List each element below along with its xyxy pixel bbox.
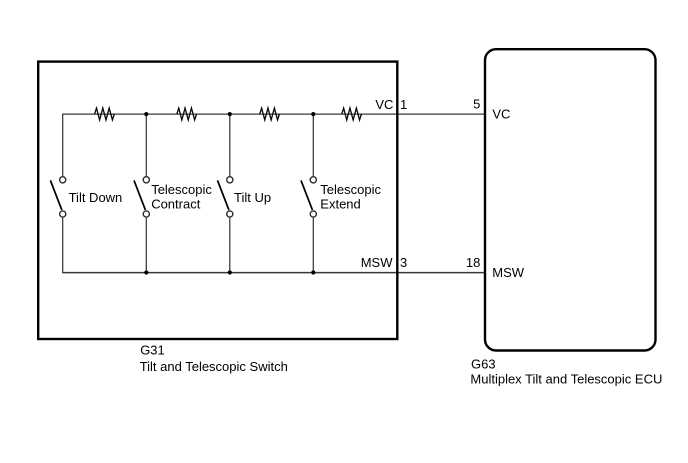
wire: VC net top horizontal	[62, 113, 484, 115]
svg-text:Telescopic: Telescopic	[320, 182, 381, 197]
switch SW1 Tilt Down	[50, 177, 122, 217]
pin name MSW inside ECU	[492, 265, 525, 280]
switch SW3 Tilt Up	[218, 177, 272, 217]
svg-text:18: 18	[466, 255, 480, 270]
net label MSW (left of pin 3)	[361, 255, 394, 270]
svg-text:G63: G63	[471, 356, 496, 371]
svg-text:Telescopic: Telescopic	[151, 182, 212, 197]
component box G31 Tilt and Telescopic Switch	[38, 62, 397, 339]
pin name VC inside ECU	[492, 106, 510, 121]
wire: column 4 verticals	[312, 114, 314, 272]
resistor R1	[95, 108, 115, 120]
resistor R4	[342, 108, 362, 120]
pin 5	[473, 97, 480, 112]
svg-text:Tilt and Telescopic Switch: Tilt and Telescopic Switch	[140, 359, 288, 374]
wire: column 1 verticals	[62, 114, 64, 272]
label G31	[140, 343, 288, 374]
wire: column 2 verticals	[145, 114, 147, 272]
node: junction top wire col2	[144, 112, 148, 116]
switch SW2 Telescopic Contract	[134, 177, 212, 217]
wire: column 3 verticals	[229, 114, 231, 272]
node: junction top wire col3	[228, 112, 232, 116]
svg-text:3: 3	[400, 255, 407, 270]
pin 3	[400, 255, 407, 270]
svg-text:1: 1	[400, 97, 407, 112]
node: junction bottom wire col3	[228, 270, 232, 274]
svg-text:5: 5	[473, 97, 480, 112]
svg-text:Tilt Up: Tilt Up	[234, 190, 271, 205]
svg-text:Tilt Down: Tilt Down	[69, 190, 123, 205]
svg-text:G31: G31	[140, 343, 165, 358]
svg-text:VC: VC	[375, 97, 393, 112]
svg-text:Contract: Contract	[151, 197, 201, 212]
pin 1	[400, 97, 407, 112]
label G63	[470, 356, 662, 386]
svg-text:VC: VC	[492, 106, 510, 121]
resistor R3	[260, 108, 280, 120]
node: junction top wire col4	[311, 112, 315, 116]
component box G63 Multiplex Tilt and Telescopic ECU	[485, 49, 656, 350]
net label VC (left of pin 1)	[375, 97, 393, 112]
svg-text:MSW: MSW	[361, 255, 394, 270]
node: junction bottom wire col4	[311, 270, 315, 274]
node: junction bottom wire col2	[144, 270, 148, 274]
switch SW4 Telescopic Extend	[301, 177, 381, 217]
svg-text:MSW: MSW	[492, 265, 525, 280]
wire: MSW net bottom horizontal	[62, 272, 484, 274]
resistor R2	[177, 108, 197, 120]
svg-text:Extend: Extend	[320, 197, 360, 212]
svg-text:Multiplex Tilt and Telescopic: Multiplex Tilt and Telescopic ECU	[470, 371, 662, 386]
pin 18	[466, 255, 480, 270]
